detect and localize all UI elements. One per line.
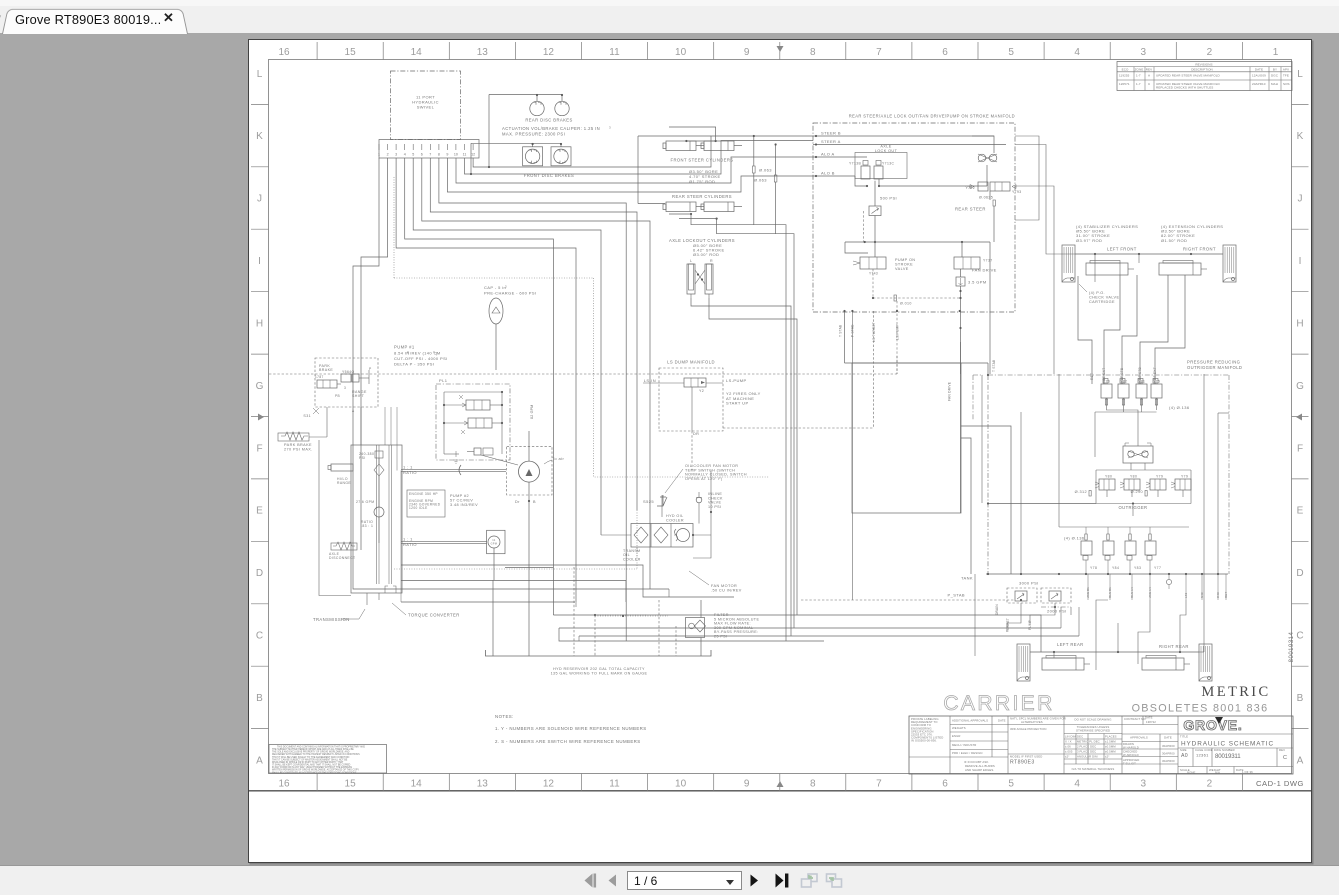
wire front steer feed <box>669 127 716 141</box>
wire: swivel port 2 <box>361 158 388 370</box>
svg-text:2 PLACE DEC: 2 PLACE DEC <box>1077 745 1096 749</box>
wire rear feed 3 <box>1138 600 1150 664</box>
inline check symbol <box>1166 579 1171 584</box>
svg-text:RLS B1: RLS B1 <box>1108 587 1112 598</box>
svg-text:CHECK VALVE: CHECK VALVE <box>1089 295 1119 299</box>
svg-text:ALO A: ALO A <box>821 151 835 156</box>
svg-text:S49: S49 <box>1200 592 1204 598</box>
svg-text:LF STB: LF STB <box>1120 367 1124 380</box>
svg-text:RIGHT REAR: RIGHT REAR <box>1159 644 1189 649</box>
wire steer b loop <box>1015 136 1039 220</box>
svg-text:Ø.063: Ø.063 <box>759 168 772 173</box>
svg-text:RET: RET <box>1090 373 1094 380</box>
wire rear feed 2 <box>1117 623 1119 652</box>
svg-text:START UP: START UP <box>726 401 749 406</box>
svg-text:B: B <box>533 500 536 504</box>
previous page button (disabled) <box>608 874 617 887</box>
svg-text:A: A <box>1148 74 1150 78</box>
shuttle top right <box>972 136 994 153</box>
svg-text:THIS DOCUMENT AND CONTAINS AL: THIS DOCUMENT AND CONTAINS AL INFORMATIO… <box>277 746 365 749</box>
drive coupling <box>474 448 481 455</box>
fan drive valve Y737 <box>954 257 980 269</box>
svg-text:Y737: Y737 <box>983 259 993 263</box>
wire filter out <box>700 638 702 657</box>
wire: tank rail link <box>668 589 670 597</box>
wire return 2 <box>401 601 575 603</box>
svg-text:SOS: SOS <box>1283 82 1290 86</box>
svg-text:F: F <box>1297 443 1303 454</box>
svg-text:14: 14 <box>411 779 423 790</box>
svg-text:Y79: Y79 <box>1181 475 1188 479</box>
svg-text:RET: RET <box>1224 592 1228 598</box>
svg-text:4: 4 <box>1074 47 1080 58</box>
wire return 1 <box>401 565 734 597</box>
svg-text:10: 10 <box>454 153 458 157</box>
svg-text:11: 11 <box>492 538 496 542</box>
svg-text:1200 IDLE: 1200 IDLE <box>409 506 428 510</box>
svg-text:SWIVEL: SWIVEL <box>417 105 435 110</box>
svg-text:15: 15 <box>345 47 357 58</box>
svg-text:DO NOT SCALE DRAWING: DO NOT SCALE DRAWING <box>1075 718 1112 722</box>
wire axle valve drop <box>874 181 876 206</box>
wire ALO B feed <box>447 158 813 192</box>
svg-text:UPDATED REAR STEER VALVE MANIF: UPDATED REAR STEER VALVE MANIFOLD <box>1156 74 1221 78</box>
wire: swivel port 1 <box>353 158 379 370</box>
svg-text:Y77: Y77 <box>1154 566 1161 570</box>
svg-text:STROKE: STROKE <box>895 263 913 267</box>
svg-text:FAN DRIVE: FAN DRIVE <box>972 268 997 273</box>
wire dotted run 3 <box>394 568 637 570</box>
wire: front brake feed <box>471 142 561 144</box>
wire shaft trunk <box>400 471 402 603</box>
svg-text:1 : 1: 1 : 1 <box>403 537 413 542</box>
svg-text:T ELLIOT: T ELLIOT <box>1123 761 1136 765</box>
svg-text:10: 10 <box>675 779 687 790</box>
svg-text:Y80: Y80 <box>1130 475 1137 479</box>
svg-text:T STAB: T STAB <box>839 324 843 337</box>
svg-text:REAR STEER/AXLE LOCK OUT/FAN D: REAR STEER/AXLE LOCK OUT/FAN DRIVE/PUMP … <box>849 114 1015 119</box>
svg-text:Dr: Dr <box>515 500 520 504</box>
wire RF EXT <box>1155 275 1185 384</box>
svg-text:A: A <box>1297 755 1304 766</box>
svg-text:CONTRACT NO.: CONTRACT NO. <box>1124 717 1147 721</box>
svg-text:2. S - NUMBERS ARE SWITCH WIR: 2. S - NUMBERS ARE SWITCH WIRE REFERENCE… <box>495 739 641 744</box>
svg-text:PL1: PL1 <box>439 378 448 383</box>
svg-text:4: 4 <box>404 153 406 157</box>
wire trunk A <box>961 426 1011 574</box>
shaft 1 <box>401 469 506 471</box>
transmission outline <box>351 445 402 593</box>
svg-text:MAH: MAH <box>1271 82 1278 86</box>
svg-text:CAGE CODE: CAGE CODE <box>1195 748 1213 752</box>
svg-text:Ø.010: Ø.010 <box>900 302 912 306</box>
svg-text:JKG A4: JKG A4 <box>1148 587 1152 598</box>
svg-text:A: A <box>352 409 355 413</box>
svg-text:ENGR: ENGR <box>952 734 960 738</box>
svg-text:): ) <box>436 351 438 356</box>
wire dashed pilot drop <box>896 301 898 374</box>
svg-text:OTHERWISE SPECIFIED: OTHERWISE SPECIFIED <box>1076 729 1110 733</box>
svg-text:REAR STEER CYLINDERS: REAR STEER CYLINDERS <box>672 194 732 199</box>
svg-text:LEFT FRONT: LEFT FRONT <box>1107 247 1137 252</box>
wire pump2 drain <box>493 548 495 580</box>
svg-text:3: 3 <box>609 125 611 129</box>
svg-text:1 : 1: 1 : 1 <box>403 465 413 470</box>
svg-text:3: 3 <box>395 153 397 157</box>
svg-text:B: B <box>256 693 263 704</box>
svg-text:REAR STEER: REAR STEER <box>955 207 986 212</box>
svg-text:J: J <box>1298 194 1303 205</box>
t-stab dashdot riser <box>987 375 989 574</box>
wire: rear feeds <box>1053 652 1055 658</box>
wires below reliefs <box>1007 603 1021 632</box>
svg-text:±0.5MM: ±0.5MM <box>1105 745 1116 749</box>
svg-text:Y80: Y80 <box>1105 475 1112 479</box>
svg-text:RATIO: RATIO <box>403 470 417 475</box>
wire: steer B drop to rear cylinders <box>638 135 711 137</box>
sheet centering fold marks <box>777 781 784 787</box>
svg-text:6: 6 <box>942 47 948 58</box>
riser labels lower <box>1087 574 1089 600</box>
svg-text:120571: 120571 <box>1119 82 1130 86</box>
wire cascade 3 <box>422 158 650 589</box>
svg-text:I: I <box>1299 256 1302 267</box>
svg-text:METRIC PL DEC: METRIC PL DEC <box>1077 740 1100 744</box>
svg-text:C: C <box>1283 755 1287 761</box>
wire: rear steer bottom links <box>691 214 786 641</box>
wire return mid <box>401 581 626 603</box>
manifold dash-dot rail right <box>988 374 1229 376</box>
svg-text:±2°: ±2° <box>1065 755 1070 759</box>
svg-text:NOTES:: NOTES: <box>495 714 514 719</box>
torque converter shaft columns <box>376 445 378 584</box>
svg-text:RIGHT FRONT: RIGHT FRONT <box>1183 247 1216 252</box>
svg-text:Ø.063: Ø.063 <box>754 178 767 183</box>
wire LF STB <box>1122 275 1137 384</box>
svg-text:±.005: ±.005 <box>1065 750 1073 754</box>
first page button (disabled) <box>584 873 597 888</box>
svg-text:THAT IT CAN BE SUBJECT OF MAST: THAT IT CAN BE SUBJECT OF MASTER ASSIGNM… <box>272 758 348 761</box>
svg-text:OPENS AT 120° F): OPENS AT 120° F) <box>685 477 723 481</box>
svg-text:5: 5 <box>1008 779 1014 790</box>
svg-text:RANGE: RANGE <box>337 481 351 485</box>
svg-text:AXLE: AXLE <box>880 145 891 149</box>
proprietary notice block <box>269 745 387 774</box>
svg-text:12: 12 <box>543 779 555 790</box>
svg-text:3: 3 <box>344 386 346 390</box>
svg-text:MECH / INDUSTR: MECH / INDUSTR <box>952 743 976 747</box>
svg-text:H: H <box>1296 319 1303 330</box>
shuttle valves <box>1123 446 1153 463</box>
svg-text:COOLER: COOLER <box>623 557 641 561</box>
wires into reservoir <box>492 580 494 656</box>
wire: LS turret dashed link <box>873 311 875 428</box>
svg-text:N/A: N/A <box>1215 771 1220 775</box>
svg-text:Ø.312: Ø.312 <box>1075 490 1087 494</box>
svg-text:9: 9 <box>446 153 448 157</box>
svg-text:1. Y - NUMBERS ARE SOLENOID W: 1. Y - NUMBERS ARE SOLENOID WIRE REFEREN… <box>495 726 647 731</box>
svg-text:3 PLACE DEC: 3 PLACE DEC <box>1077 750 1096 754</box>
pl1 wires <box>443 392 445 454</box>
svg-text:METRIC: METRIC <box>1201 684 1270 700</box>
svg-text:Ø1.75" ROD: Ø1.75" ROD <box>689 179 715 184</box>
svg-text:J: J <box>257 194 262 205</box>
front steer cylinders <box>666 141 696 151</box>
svg-text:ALTERNATIVES: ALTERNATIVES <box>1021 720 1043 724</box>
svg-text:D: D <box>1296 568 1303 579</box>
trans wires <box>360 407 362 445</box>
svg-text:DATE: DATE <box>998 719 1006 723</box>
pump on stroke valve Y743 <box>860 257 886 269</box>
svg-text:1: 1 <box>378 153 380 157</box>
pressure reducing valves Y80 Y80 Y79 Y79 <box>1096 469 1191 471</box>
svg-text:REAR DISC BRAKES: REAR DISC BRAKES <box>525 118 572 123</box>
page with schematic <box>248 39 1312 863</box>
svg-text:12AUG09: 12AUG09 <box>1252 74 1266 78</box>
svg-text:C: C <box>1296 631 1303 642</box>
copy page backward icon (disabled) <box>800 872 818 889</box>
wire alo-b valve link <box>855 176 867 186</box>
wire dotted riser <box>393 177 395 278</box>
svg-text:TURRET: TURRET <box>1006 618 1010 632</box>
flow control 3.5 GPM <box>956 277 965 286</box>
svg-text:Ø.0625: Ø.0625 <box>979 196 993 200</box>
svg-text:7: 7 <box>429 153 431 157</box>
svg-text:Ø3.00" ROD: Ø3.00" ROD <box>693 252 719 257</box>
svg-text:C: C <box>256 631 263 642</box>
svg-text:PRESSURE REDUCING: PRESSURE REDUCING <box>1187 360 1240 365</box>
svg-text:HYD RESERVOIR 202 GAL TOTAL CA: HYD RESERVOIR 202 GAL TOTAL CAPACITY <box>553 667 645 671</box>
svg-text:10 PSI: 10 PSI <box>708 505 721 509</box>
svg-text:E: E <box>256 506 263 517</box>
svg-text:57 CC/REV: 57 CC/REV <box>450 499 473 503</box>
fan motor <box>677 529 690 542</box>
svg-text:RT890E3: RT890E3 <box>1010 760 1035 766</box>
page number combo box <box>627 871 742 890</box>
svg-text:14: 14 <box>411 47 423 58</box>
svg-text:TORQUE CONVERTER: TORQUE CONVERTER <box>408 613 460 618</box>
wire: T STAB link to dashdot riser <box>844 311 846 363</box>
svg-text:REV: REV <box>1279 748 1285 752</box>
svg-text:.50 CU IN/REV: .50 CU IN/REV <box>711 589 742 593</box>
svg-text:5: 5 <box>412 153 414 157</box>
wire y793 out <box>1015 186 1054 374</box>
svg-text:B: B <box>1297 693 1304 704</box>
svg-text:DRAIN: DRAIN <box>995 604 999 615</box>
svg-text:APPROVALS: APPROVALS <box>1130 736 1148 740</box>
svg-text:G: G <box>256 381 264 392</box>
hydraulic swivel (11 port) <box>391 71 461 140</box>
dotted link <box>595 614 647 616</box>
svg-text:PUMP ON: PUMP ON <box>895 258 915 262</box>
svg-text:T STAB: T STAB <box>992 359 996 372</box>
wire return 3 <box>553 615 1041 652</box>
wire rear feed 1 <box>1096 600 1108 670</box>
svg-text:RATIO: RATIO <box>403 542 417 547</box>
wires cooler <box>601 534 631 536</box>
svg-text:JKG B1: JKG B1 <box>1086 587 1090 598</box>
svg-text:BY: BY <box>1273 67 1277 71</box>
svg-text:LS DUMP MANIFOLD: LS DUMP MANIFOLD <box>667 360 715 365</box>
svg-text:L: L <box>690 259 692 263</box>
svg-text:8: 8 <box>810 47 816 58</box>
svg-text:500 PSI: 500 PSI <box>880 196 897 201</box>
svg-text:135 GAL WORKING TO FULL MARK O: 135 GAL WORKING TO FULL MARK ON GAUGE <box>551 671 648 675</box>
dashed links in manifold <box>959 290 961 292</box>
wire bundle left <box>384 407 386 445</box>
wire riser C <box>1203 374 1205 652</box>
svg-text:2: 2 <box>1207 779 1213 790</box>
svg-text:80019311: 80019311 <box>1215 753 1241 760</box>
stabilizer cylinder left front <box>1062 245 1075 282</box>
wire: front brake drop <box>470 143 472 174</box>
svg-text:H: H <box>256 319 263 330</box>
svg-text:Y78: Y78 <box>1090 566 1097 570</box>
wire cascade 2 <box>430 158 637 510</box>
svg-text:GPM: GPM <box>491 543 498 546</box>
rail to tank (dash-dot) <box>986 573 1228 575</box>
svg-text:COOLER: COOLER <box>666 518 684 522</box>
svg-text:D: D <box>256 568 263 579</box>
svg-text:I: I <box>258 256 261 267</box>
svg-text:12: 12 <box>543 47 555 58</box>
svg-text:5: 5 <box>1008 47 1014 58</box>
svg-text:A0: A0 <box>1181 753 1188 759</box>
svg-text:DATE: DATE <box>1255 67 1263 71</box>
svg-text:±2°: ±2° <box>1105 755 1110 759</box>
check valve <box>696 497 702 503</box>
svg-text:Y2: Y2 <box>699 389 704 393</box>
svg-text:ANGULAR DIM: ANGULAR DIM <box>1077 755 1098 759</box>
svg-text:3: 3 <box>505 285 507 289</box>
svg-text:16: 16 <box>278 47 290 58</box>
wire: rear brake feed <box>489 94 562 96</box>
wire: lockout cross <box>695 270 705 284</box>
svg-text:3: 3 <box>433 350 435 354</box>
wire riser D <box>1217 413 1219 574</box>
svg-text:Y83: Y83 <box>1134 566 1141 570</box>
wire tank drop <box>974 574 976 656</box>
svg-text:TANK: TANK <box>961 576 973 581</box>
svg-text:IN GS5500-00-836.: IN GS5500-00-836. <box>911 739 937 743</box>
wire dotted run 2 <box>594 278 769 477</box>
wire to tank rail <box>353 370 669 589</box>
wire filter in <box>700 600 702 618</box>
svg-text:Y564Q: Y564Q <box>342 370 355 374</box>
wire: rear outrigger rail <box>1030 651 1199 653</box>
cooler filter diamonds <box>634 527 648 543</box>
svg-text:30APR00: 30APR00 <box>1162 759 1175 763</box>
svg-text:6: 6 <box>421 153 423 157</box>
svg-text:X / X: X / X <box>1065 740 1072 744</box>
svg-text:Y79: Y79 <box>1156 475 1163 479</box>
svg-text:CUT-OFF PSI - 4000 PSI: CUT-OFF PSI - 4000 PSI <box>394 356 448 361</box>
wire LF EXT <box>1104 275 1120 384</box>
svg-text:PARK BRAKE: PARK BRAKE <box>284 443 312 447</box>
svg-text:LEFT REAR: LEFT REAR <box>1057 642 1084 647</box>
svg-text:(4) P.O.: (4) P.O. <box>1089 291 1105 295</box>
svg-text:DISCONNECT: DISCONNECT <box>329 556 355 560</box>
svg-text:RLS A4: RLS A4 <box>1130 587 1134 598</box>
svg-text:G: G <box>1296 381 1304 392</box>
svg-text:GROVE.: GROVE. <box>1183 717 1242 733</box>
main pump P1 <box>507 446 552 495</box>
svg-text:VALVE: VALVE <box>895 267 909 271</box>
svg-text:30APR00: 30APR00 <box>1162 752 1175 756</box>
svg-text:E: E <box>1297 506 1304 517</box>
wire STEER B feed <box>473 136 813 167</box>
svg-text:NONE: NONE <box>1187 771 1196 775</box>
svg-text:CAP - 5 in: CAP - 5 in <box>484 285 506 290</box>
svg-text:RF EXT: RF EXT <box>1153 367 1157 380</box>
rear disc brakes <box>530 101 544 115</box>
svg-text:Ø3.97" ROD: Ø3.97" ROD <box>1076 238 1102 243</box>
svg-text:16: 16 <box>278 779 290 790</box>
orifice 0.010 <box>872 269 874 298</box>
stabilizer cylinder right front <box>1223 245 1236 282</box>
svg-text:PSI: PSI <box>359 456 366 460</box>
svg-text:15: 15 <box>345 779 357 790</box>
svg-text:20APR10: 20APR10 <box>1252 82 1266 86</box>
svg-text:PUMP #1: PUMP #1 <box>394 345 415 350</box>
svg-text:Y793: Y793 <box>1012 190 1022 194</box>
control valve 1 <box>466 400 490 410</box>
svg-text:S525: S525 <box>643 499 654 504</box>
svg-text:25 PSI: 25 PSI <box>714 635 727 639</box>
svg-text:FAN DRIVE: FAN DRIVE <box>948 381 952 401</box>
svg-text:DEC: DEC <box>1077 735 1083 739</box>
svg-text:2: 2 <box>1207 47 1213 58</box>
svg-text:10: 10 <box>675 47 687 58</box>
svg-text:MAX. PRESSURE: 2300 PSI: MAX. PRESSURE: 2300 PSI <box>502 132 565 137</box>
svg-text:STEER B: STEER B <box>821 130 841 135</box>
svg-text:THAT IT WILL BE USED SOLELY TO: THAT IT WILL BE USED SOLELY TO THE AGREE… <box>272 756 350 759</box>
svg-text:F: F <box>256 443 262 454</box>
svg-text:TFE: TFE <box>1283 74 1289 78</box>
extension cylinder right front <box>1159 263 1201 275</box>
svg-text:6: 6 <box>942 779 948 790</box>
svg-text:PUMP #2: PUMP #2 <box>450 494 469 498</box>
svg-text:Ø.290: Ø.290 <box>1131 490 1143 494</box>
wire: outrigger feeds down <box>1094 254 1096 282</box>
relief valve 2000 psi <box>1041 588 1071 603</box>
wire cascade 1 <box>439 158 626 641</box>
hydraulic reservoir <box>486 650 712 656</box>
svg-text:7: 7 <box>876 779 882 790</box>
svg-text:DWG NUMBER: DWG NUMBER <box>1214 748 1235 752</box>
svg-text:APV: APV <box>1283 67 1289 71</box>
svg-text:PB: PB <box>335 394 340 398</box>
svg-text:FAN MOTOR: FAN MOTOR <box>711 584 737 588</box>
svg-text:SHALL BE CONSTRUED AS ACCEPTAN: SHALL BE CONSTRUED AS ACCEPTANCE OF THE … <box>272 771 357 774</box>
wire trunk C <box>981 375 983 503</box>
svg-text:1787: 1787 <box>315 375 324 379</box>
wire: pump2 outlet link <box>505 566 553 568</box>
svg-text:LS.PUMP: LS.PUMP <box>895 324 899 340</box>
svg-text:DESCRIPTION: DESCRIPTION <box>1191 67 1213 71</box>
front disc brakes <box>523 147 543 166</box>
svg-text:13: 13 <box>477 47 489 58</box>
wire STEER A feed <box>465 141 814 175</box>
svg-text:RF STB: RF STB <box>1138 366 1142 380</box>
svg-text:C49: C49 <box>1216 592 1220 598</box>
wire: front outrigger rail <box>1075 253 1223 255</box>
svg-text:3: 3 <box>1141 47 1147 58</box>
svg-text:BRAKE: BRAKE <box>319 368 333 372</box>
svg-text:DELIVERED WITH AGREED TO THE H: DELIVERED WITH AGREED TO THE HIGHEST RES… <box>272 753 360 756</box>
wire pump suction <box>528 431 530 461</box>
svg-text:SIZE: SIZE <box>1180 748 1187 752</box>
